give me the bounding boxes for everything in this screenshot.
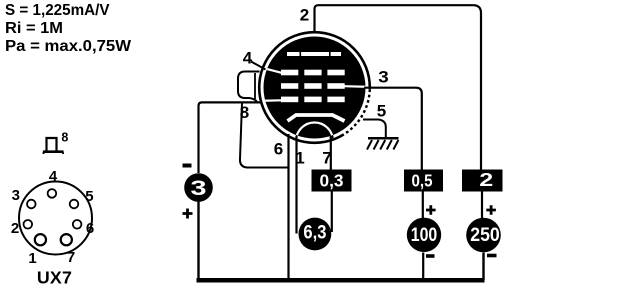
svg-text:8: 8: [61, 131, 68, 145]
svg-text:2: 2: [11, 220, 19, 237]
svg-text:6: 6: [274, 140, 283, 159]
wire anode to top rail: [315, 5, 482, 170]
grid lead inside tab: [254, 73, 256, 99]
resistor 0,5: [404, 170, 443, 192]
svg-text:Ri = 1M: Ri = 1M: [5, 20, 63, 37]
top cap symbol: [43, 138, 64, 154]
cathode: [288, 115, 345, 121]
wire 100 to bus: [422, 253, 424, 280]
heater loop: [296, 123, 333, 160]
wire heater pin 1: [295, 136, 297, 234]
svg-text:UX7: UX7: [37, 268, 72, 286]
wire metallisation to cathode line: [240, 103, 289, 168]
grid lead diagonal to pin 4: [263, 68, 282, 73]
resistor 0,3: [312, 170, 352, 192]
heater supply 6,3: [299, 218, 332, 251]
socket outline UX7: [19, 182, 92, 255]
grid row 1 dashes: [281, 70, 298, 76]
svg-text:100: 100: [411, 224, 438, 246]
svg-text:S = 1,225mA/V: S = 1,225mA/V: [5, 2, 110, 19]
grid row 3 dashes: [281, 97, 298, 103]
svg-text:6,3: 6,3: [303, 222, 326, 244]
leader line pin 4: [251, 62, 266, 70]
wire heater pin 7 lower: [331, 192, 333, 233]
socket pin 4: [48, 189, 57, 198]
battery plus: [183, 209, 193, 219]
supply 100: [407, 218, 441, 252]
socket pin 2: [24, 220, 33, 229]
grid lead to pin 8 side: [263, 99, 282, 102]
battery B1 3V: [184, 173, 213, 202]
wire grid to battery: [199, 102, 263, 173]
socket pin 3: [27, 200, 36, 209]
svg-text:5: 5: [85, 188, 93, 205]
wire battery to bus: [197, 202, 199, 281]
screen grid lead to pin 3: [344, 85, 366, 88]
svg-text:3: 3: [191, 177, 207, 200]
socket pin 7: [61, 234, 72, 245]
wire 2 to 250: [481, 192, 483, 219]
socket pin 6: [73, 220, 82, 229]
tube V1 body disc: [264, 37, 366, 139]
svg-text:3: 3: [12, 187, 20, 204]
ground bus: [197, 278, 485, 283]
svg-text:1: 1: [28, 250, 36, 267]
anode plate bar: [287, 52, 341, 56]
wire heater pin 7 upper: [330, 136, 332, 170]
svg-text:0,5: 0,5: [412, 171, 433, 191]
ground: [367, 138, 399, 149]
svg-text:5: 5: [377, 102, 386, 121]
wire cathode pin 6 to bus: [287, 134, 289, 280]
wire screen pin 3: [364, 88, 422, 170]
svg-text:3: 3: [378, 68, 389, 87]
svg-text:0,3: 0,3: [320, 171, 344, 191]
grid side tab: [238, 72, 260, 103]
svg-text:2: 2: [479, 170, 493, 190]
plus 250: [486, 205, 496, 215]
minus 100: [426, 254, 435, 258]
heater loop gap crossing: [296, 123, 333, 160]
svg-text:2: 2: [300, 6, 309, 25]
plus 100: [426, 205, 436, 215]
wire 0,5 to 100: [422, 192, 424, 219]
grid row 2 dashes: [281, 83, 298, 89]
wire 250 to bus: [482, 253, 484, 281]
svg-text:250: 250: [470, 224, 500, 246]
envelope dashed metallisation arc: [344, 89, 370, 134]
battery minus: [183, 164, 192, 168]
resistor 2: [462, 170, 503, 192]
socket pin 5: [70, 200, 79, 209]
svg-text:7: 7: [67, 249, 75, 266]
minus 250: [487, 254, 497, 258]
svg-text:4: 4: [243, 49, 253, 68]
svg-text:6: 6: [86, 220, 94, 237]
wire suppressor to ground: [363, 120, 386, 138]
svg-text:Pa = max.0,75W: Pa = max.0,75W: [5, 38, 132, 55]
socket pin 1: [35, 234, 46, 245]
svg-text:4: 4: [49, 168, 58, 185]
tube envelope: [259, 32, 370, 143]
supply 250: [466, 218, 501, 253]
